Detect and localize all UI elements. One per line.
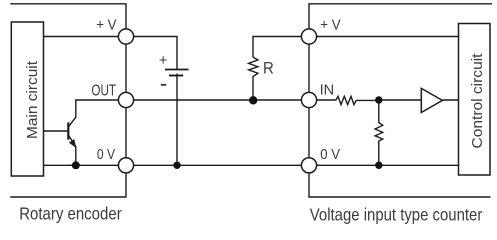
terminal IN (counter) [301, 92, 316, 107]
battery positive plate [165, 69, 189, 71]
transistor Q1 collector [69, 100, 118, 126]
wire: encoder +V lead [44, 36, 119, 38]
resistor R3 (pull-down, vertical zigzag) [375, 100, 383, 165]
resistor R1 (vertical zigzag) [249, 57, 258, 100]
wire: terminal link IN to 0V (right) [308, 108, 310, 157]
junction: R2 to R3 [375, 96, 382, 103]
transistor Q1 emitter [69, 136, 76, 166]
counter enclosure bottom line [309, 173, 491, 197]
svg-text:IN: IN [320, 82, 335, 99]
svg-text:OUT: OUT [91, 82, 116, 99]
terminal +V (encoder) [118, 29, 133, 44]
wire: terminal link +V to OUT (left) [125, 44, 127, 92]
wire: battery to 0V rail [176, 74, 178, 166]
transistor Q1 emitter arrowhead [69, 139, 76, 148]
svg-text:Rotary encoder: Rotary encoder [19, 204, 122, 224]
terminal 0V (counter) [301, 158, 316, 173]
svg-text:+ V: + V [96, 17, 116, 34]
svg-text:Voltage input type counter: Voltage input type counter [310, 205, 483, 225]
junction: battery to 0V [173, 162, 180, 169]
resistor R2 (series, horizontal zigzag) [336, 96, 379, 104]
wire: junction to buffer [379, 99, 422, 101]
wire: terminal link OUT to 0V (left) [125, 108, 127, 157]
wire: 0V rail between circles [134, 164, 301, 166]
wire: 0V encoder lead [44, 164, 119, 166]
transistor Q1 base lead [44, 130, 68, 132]
wire: terminal link +V to IN (right) [308, 44, 310, 92]
wire: +V rail to battery [134, 37, 177, 70]
wire: 0V rail to control circuit [317, 164, 459, 166]
counter enclosure top line [309, 4, 492, 29]
svg-text:Control circuit: Control circuit [469, 53, 486, 149]
wire: OUT rail to IN [134, 99, 301, 101]
transistor Q1 base bar [67, 122, 69, 139]
wire: counter +V lead to control circuit [317, 36, 459, 38]
junction: R1 to OUT rail [249, 96, 257, 104]
svg-text:Main circuit: Main circuit [24, 60, 41, 139]
svg-text:+ V: + V [320, 17, 340, 34]
battery negative plate [169, 75, 183, 77]
svg-text:+: + [159, 52, 168, 69]
op-amp buffer U1 [421, 88, 442, 112]
terminal 0V (encoder) [118, 158, 133, 173]
wire: counter +V rail to R [253, 37, 301, 58]
wire: IN lead [317, 99, 336, 101]
svg-text:R: R [263, 60, 274, 78]
svg-text:0 V: 0 V [320, 146, 340, 163]
terminal +V (counter) [301, 29, 316, 44]
junction: emitter to 0V [72, 161, 80, 169]
terminal OUT (encoder) [118, 92, 133, 107]
control circuit box [459, 24, 491, 176]
rotary encoder enclosure top line [10, 4, 126, 29]
main circuit box [11, 22, 43, 176]
rotary encoder enclosure bottom line [10, 173, 126, 197]
junction: R3 to 0V rail [375, 162, 382, 169]
wire: buffer output to control circuit [442, 99, 458, 101]
battery minus sign [161, 84, 167, 86]
svg-text:0 V: 0 V [97, 146, 115, 163]
